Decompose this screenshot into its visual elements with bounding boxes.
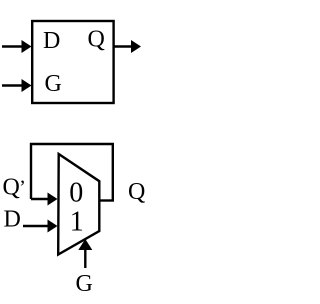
svg-text:D: D (43, 28, 60, 54)
svg-text:Q: Q (128, 179, 145, 205)
svg-text:’: ’ (19, 177, 26, 199)
svg-text:G: G (45, 71, 62, 97)
svg-text:Q: Q (88, 27, 105, 53)
svg-text:G: G (76, 271, 93, 297)
svg-text:D: D (4, 207, 21, 233)
svg-text:1: 1 (70, 207, 84, 238)
svg-text:0: 0 (69, 178, 83, 209)
svg-text:Q: Q (3, 175, 20, 201)
